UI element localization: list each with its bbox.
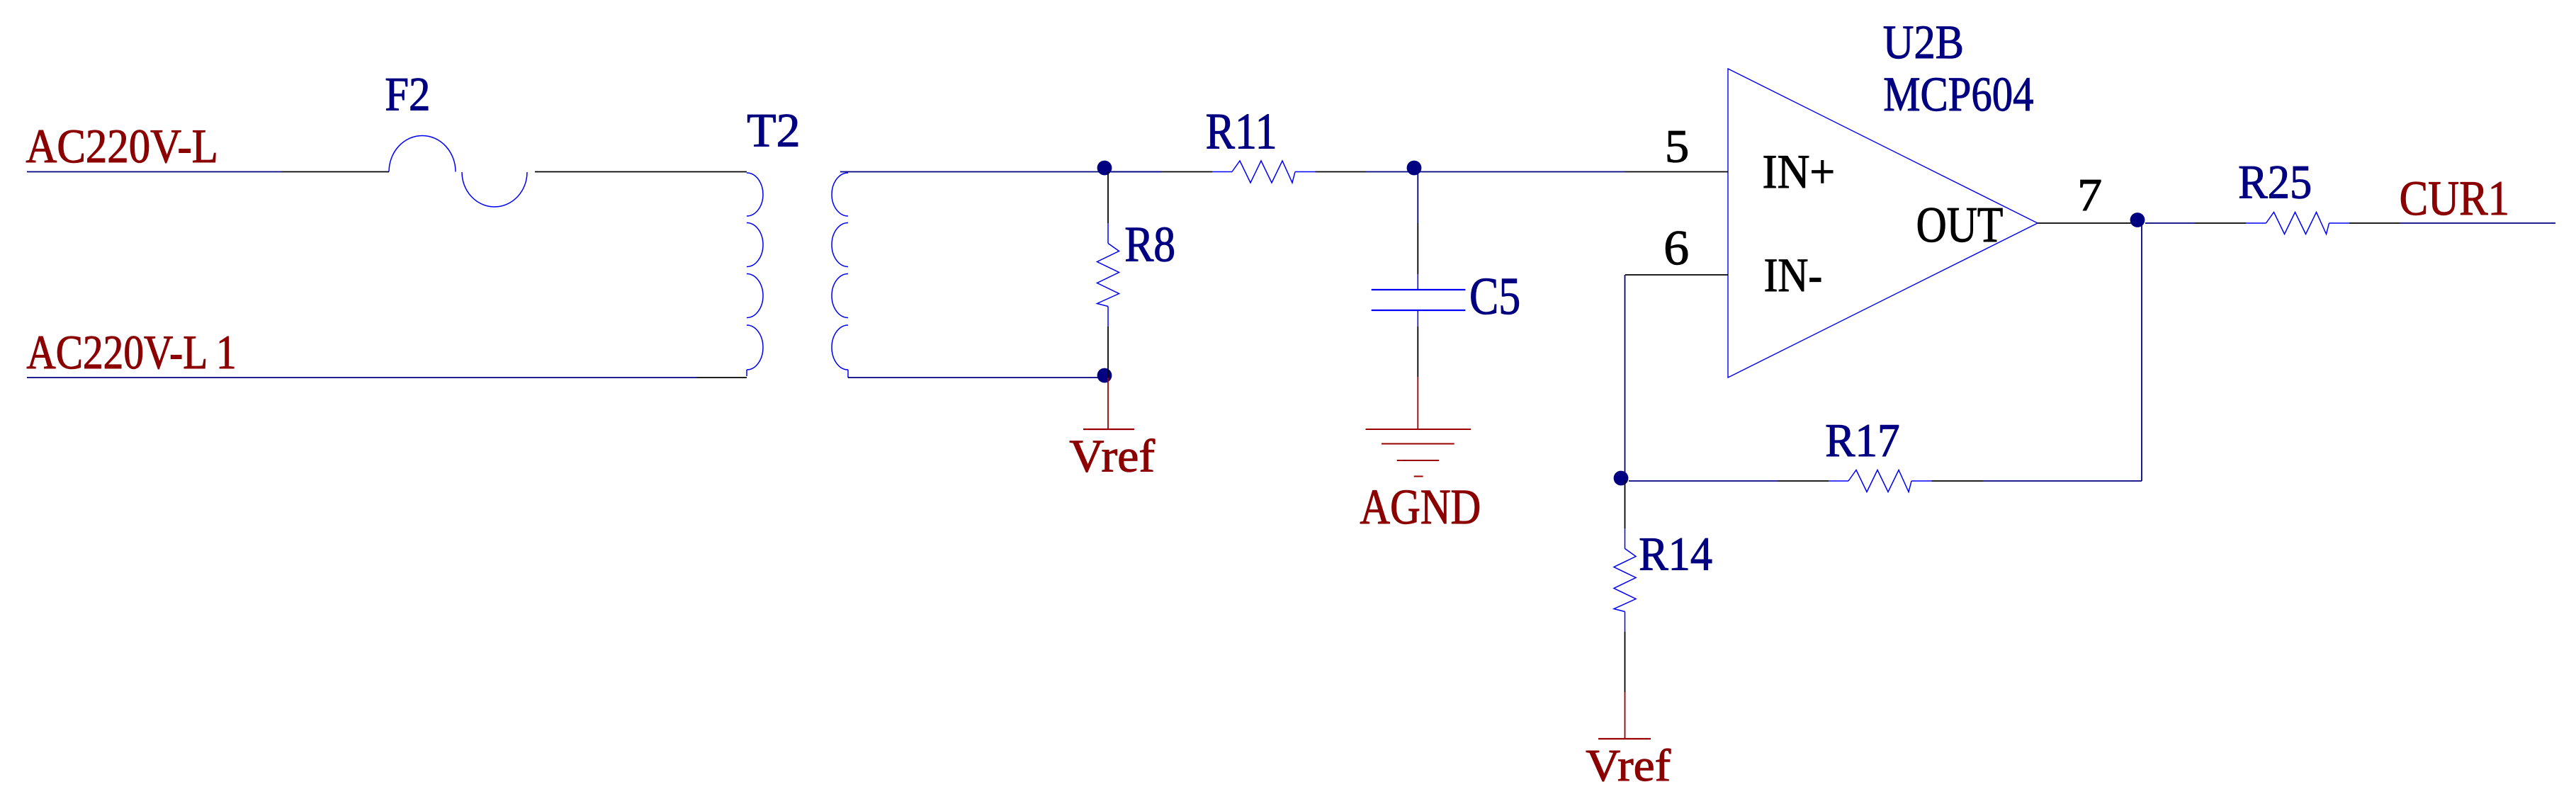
wire AC220V-L rail (black segment to fuse) <box>281 171 389 173</box>
svg-text:T2: T2 <box>747 104 801 157</box>
svg-text:R17: R17 <box>1825 415 1900 467</box>
power port Vref (left) <box>1107 378 1109 429</box>
wire bottom rail black pin to primary <box>696 377 747 378</box>
resistor R25 <box>2195 222 2246 224</box>
op-amp pin 5 lead <box>1625 171 1728 173</box>
junction node A (top of R8) <box>1097 161 1112 176</box>
svg-text:AC220V-L: AC220V-L <box>26 119 218 173</box>
wire R25 to CUR1 end (navy) <box>2400 222 2555 224</box>
svg-text:IN+: IN+ <box>1763 144 1836 198</box>
op-amp pin 6 lead <box>1625 274 1728 276</box>
wire output vertical down <box>2141 223 2142 481</box>
resistor R11 <box>1112 171 1161 173</box>
transformer T2 <box>747 173 848 378</box>
svg-text:CUR1: CUR1 <box>2400 171 2509 226</box>
wire output to R25 (navy) <box>2145 222 2195 224</box>
svg-text:7: 7 <box>2077 170 2102 221</box>
ground AGND <box>1417 377 1418 429</box>
resistor R17 <box>1778 480 1829 482</box>
junction node E (feedback) <box>1614 471 1629 486</box>
resistor R8 <box>1107 172 1109 224</box>
svg-text:U2B: U2B <box>1883 16 1964 69</box>
svg-text:R14: R14 <box>1639 528 1712 581</box>
svg-text:R25: R25 <box>2238 156 2312 209</box>
junction node B (bottom of R8) <box>1097 368 1112 383</box>
svg-text:AGND: AGND <box>1360 480 1481 535</box>
capacitor C5 <box>1417 172 1418 224</box>
svg-text:Vref: Vref <box>1069 431 1155 482</box>
wire secondary top to R11 <box>840 171 1161 173</box>
wire AC220V-L rail (navy segment) <box>27 171 281 173</box>
svg-text:OUT: OUT <box>1916 197 2004 253</box>
op-amp U2B <box>1728 69 2038 378</box>
svg-text:F2: F2 <box>385 68 430 121</box>
wire feedback horizontal (navy left) <box>1629 480 1778 482</box>
svg-text:R8: R8 <box>1124 217 1175 273</box>
svg-text:MCP604: MCP604 <box>1883 67 2033 121</box>
svg-text:AC220V-L1: AC220V-L1 <box>26 325 236 379</box>
svg-text:R11: R11 <box>1206 103 1277 160</box>
wire feedback to output (navy) <box>1983 480 2142 482</box>
svg-text:6: 6 <box>1663 221 1689 276</box>
junction node D (output) <box>2130 212 2145 227</box>
svg-text:Vref: Vref <box>1586 740 1671 790</box>
junction node C (top of C5) <box>1407 161 1422 176</box>
power port Vref (bottom) <box>1625 692 1626 739</box>
op-amp output pin 7 lead <box>2038 222 2137 224</box>
wire pin 6 vertical to feedback node <box>1625 275 1626 481</box>
svg-text:5: 5 <box>1665 121 1689 173</box>
wire fuse to transformer primary <box>535 171 747 173</box>
svg-text:IN-: IN- <box>1764 249 1823 302</box>
wire R11 to op-amp pin 5 (navy) <box>1366 171 1625 173</box>
wire AC220V-L1 bottom rail (navy) <box>27 377 696 378</box>
resistor R14 <box>1625 481 1626 528</box>
wire secondary bottom to junction <box>848 377 1108 378</box>
fuse F2 <box>389 136 527 207</box>
svg-text:C5: C5 <box>1469 267 1520 326</box>
